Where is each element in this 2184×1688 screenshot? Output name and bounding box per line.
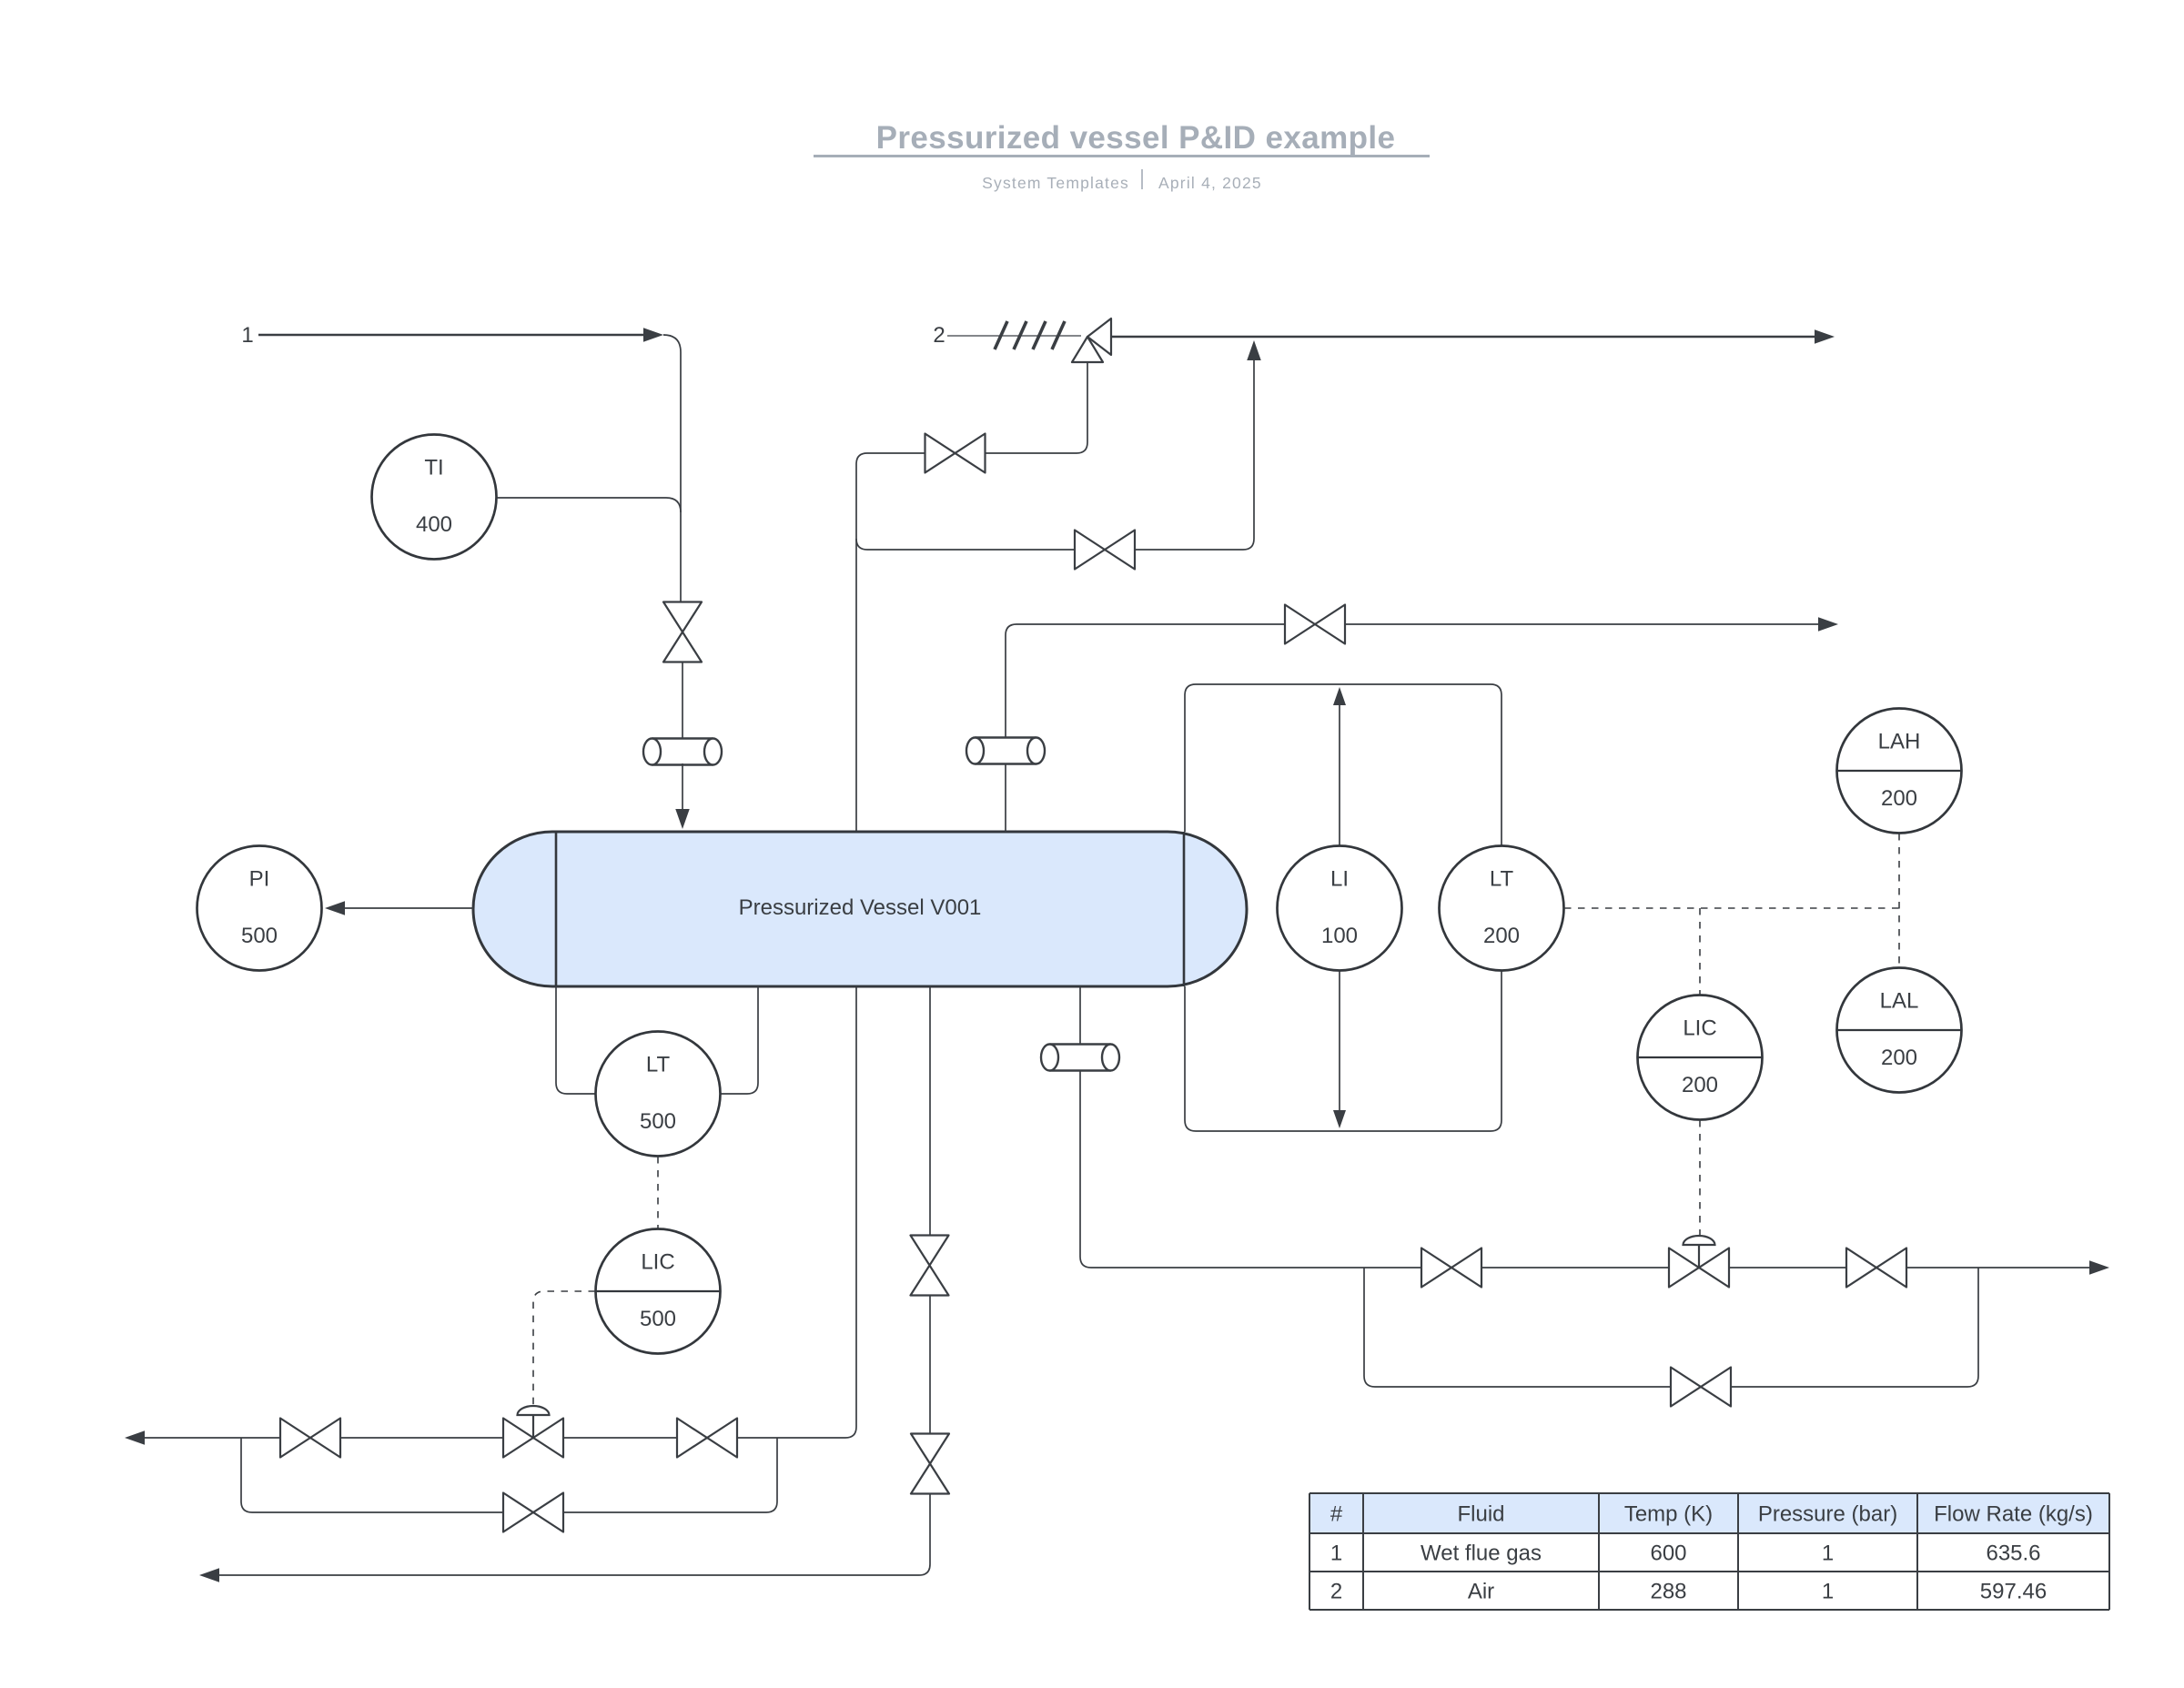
svg-text:200: 200 [1881,786,1917,811]
svg-text:200: 200 [1881,1046,1917,1070]
svg-text:Flow Rate (kg/s): Flow Rate (kg/s) [1934,1502,2093,1527]
instrument LT-200 [1440,846,1564,971]
pipe fitting FE-3 [1041,1045,1119,1071]
valve inlet V1 [663,602,702,662]
wire bottoms main segment b [340,1437,503,1439]
wire right bypass [1364,1268,1671,1387]
svg-text:LIC: LIC [641,1249,674,1274]
svg-text:597.46: 597.46 [1980,1580,2047,1604]
wire relief header [1111,336,1815,338]
wire overhead [1006,624,1285,832]
wire right header segment b [1481,1267,1669,1269]
wire bottoms main segment c [563,1437,677,1439]
instrument LIC-200 [1638,996,1763,1120]
wire vapor valve left seg [867,452,925,454]
svg-text:500: 500 [640,1109,676,1134]
arrowhead relief header [1815,329,1835,344]
instrument TI-400 [372,435,497,560]
wire vessel to PI-500 [344,907,473,909]
wire fitting to vessel [682,763,683,810]
wire drain riser upper [929,986,931,1235]
svg-text:288: 288 [1650,1580,1686,1604]
instrument PI-500 [197,846,322,971]
svg-text:Wet flue gas: Wet flue gas [1421,1541,1542,1566]
valve drain upper D1 [911,1236,949,1296]
arrowhead feed-1 [643,328,663,342]
arrowhead overhead outlet [1818,617,1838,632]
svg-text:Pressurized Vessel V001: Pressurized Vessel V001 [739,895,982,920]
wire feed-1 horizontal [258,334,644,336]
svg-text:Temp (K): Temp (K) [1624,1502,1713,1527]
pipe fitting FE-2 [966,738,1045,764]
valve bypass B3 [503,1493,563,1532]
arrowhead vent join [1247,340,1261,360]
wire vent branch [856,539,1075,550]
wire TI-400 to inlet line [497,498,681,512]
svg-text:April 4, 2025: April 4, 2025 [1158,174,1262,192]
svg-text:600: 600 [1650,1541,1686,1566]
wire feed-1 corner down to inlet valve [663,335,681,601]
signal LIC-500 to control valve [533,1291,595,1406]
wire inlet valve to fitting [682,662,683,740]
instrument LAH-200 [1837,709,1962,834]
relief angle valve PSV [1072,318,1111,362]
svg-text:635.6: 635.6 [1986,1541,2040,1566]
valve right header R1 [1421,1248,1481,1288]
signal LAH/LAL riser [1898,834,1900,967]
svg-text:LT: LT [646,1052,671,1076]
valve right bypass R3 [1671,1368,1731,1407]
arrowhead to PI-500 [325,901,345,915]
arrowhead level bottom [1333,1110,1346,1128]
arrowhead into vessel [675,809,690,829]
arrowhead bottoms outlet [125,1430,145,1445]
svg-text:2: 2 [933,323,945,348]
title underline [814,155,1430,157]
svg-text:TI: TI [424,455,443,480]
valve vapor A1 [925,434,986,473]
signal LT-200 trunk [1564,907,1899,909]
svg-text:200: 200 [1483,924,1520,948]
wire LT-500 left tap [556,986,595,1094]
svg-text:LAL: LAL [1880,988,1919,1013]
svg-text:LIC: LIC [1683,1016,1716,1040]
signal LT-500 to LIC-500 [657,1157,659,1228]
valve vent A2 [1075,531,1135,570]
wire fitting-3 to bottom header [1080,1069,1091,1268]
svg-text:LI: LI [1330,866,1349,891]
arrowhead drain outlet [199,1568,219,1582]
wire overhead b [1345,623,1818,625]
wire right header segment c [1729,1267,1846,1269]
wire fitting-3 riser [1079,986,1081,1046]
control valve LV-500 [503,1419,563,1458]
svg-text:Pressure (bar): Pressure (bar) [1758,1502,1897,1527]
instrument LAL-200 [1837,968,1962,1093]
stream table [1309,1493,2109,1533]
arrowhead level top [1333,687,1346,705]
wire PSV inlet [1077,362,1087,453]
svg-text:LAH: LAH [1878,729,1921,753]
valve overhead C1 [1285,605,1345,644]
svg-text:1: 1 [1330,1541,1342,1566]
actuator LV-500 [518,1406,550,1438]
wire drain horizontal [218,1493,930,1575]
svg-text:LT: LT [1490,866,1514,891]
svg-text:2: 2 [1330,1580,1342,1604]
svg-text:1: 1 [1822,1580,1834,1604]
signal LIC-200 to LV-200 [1699,1120,1701,1235]
svg-text:200: 200 [1682,1073,1718,1097]
signal branch to LIC-200 [1699,908,1701,995]
svg-text:Fluid: Fluid [1457,1502,1504,1527]
svg-text:System Templates: System Templates [982,174,1129,192]
arrowhead right header outlet [2089,1260,2109,1275]
svg-text:1: 1 [241,323,253,348]
wire LT-500 right tap [721,986,758,1094]
wire bypass right [563,1438,777,1512]
valve block left B1 [280,1419,340,1458]
pipe fitting FE-1 [643,739,722,765]
svg-text:400: 400 [416,512,452,537]
svg-text:500: 500 [640,1307,676,1331]
wire bottoms main segment a [144,1437,279,1439]
instrument LT-500 [596,1032,721,1157]
svg-text:1: 1 [1822,1541,1834,1566]
vessel V001 [473,832,1247,986]
wire drain between valves [929,1296,931,1434]
svg-text:500: 500 [241,924,278,948]
instrument LIC-500 [596,1229,721,1354]
actuator LV-200 [1683,1236,1715,1268]
wire right header segment d [1906,1267,2089,1269]
wire vent to relief [1135,360,1254,550]
valve drain lower D2 [911,1434,949,1494]
svg-text:Air: Air [1468,1580,1494,1604]
wire vapor valve right seg [986,452,1077,454]
wire bottoms main segment d [737,1437,845,1439]
wire feed-2 [947,335,1081,337]
svg-text:#: # [1330,1502,1343,1527]
level range arrow shaft [1339,702,1340,1113]
level bridle frame [1185,684,1501,1131]
svg-text:Pressurized vessel P&ID exampl: Pressurized vessel P&ID example [876,120,1396,156]
svg-text:PI: PI [249,866,270,891]
valve block right B2 [677,1419,737,1458]
valve right header R2 [1846,1248,1906,1288]
control valve LV-200 [1669,1248,1729,1288]
svg-text:100: 100 [1321,924,1358,948]
instrument LI-100 [1278,846,1402,971]
line break slashes [995,321,1007,349]
wire right header segment a [1091,1267,1421,1269]
wire bypass left [241,1438,503,1512]
wire vapor outlet riser [845,453,867,1438]
wire right bypass b [1731,1268,1978,1387]
